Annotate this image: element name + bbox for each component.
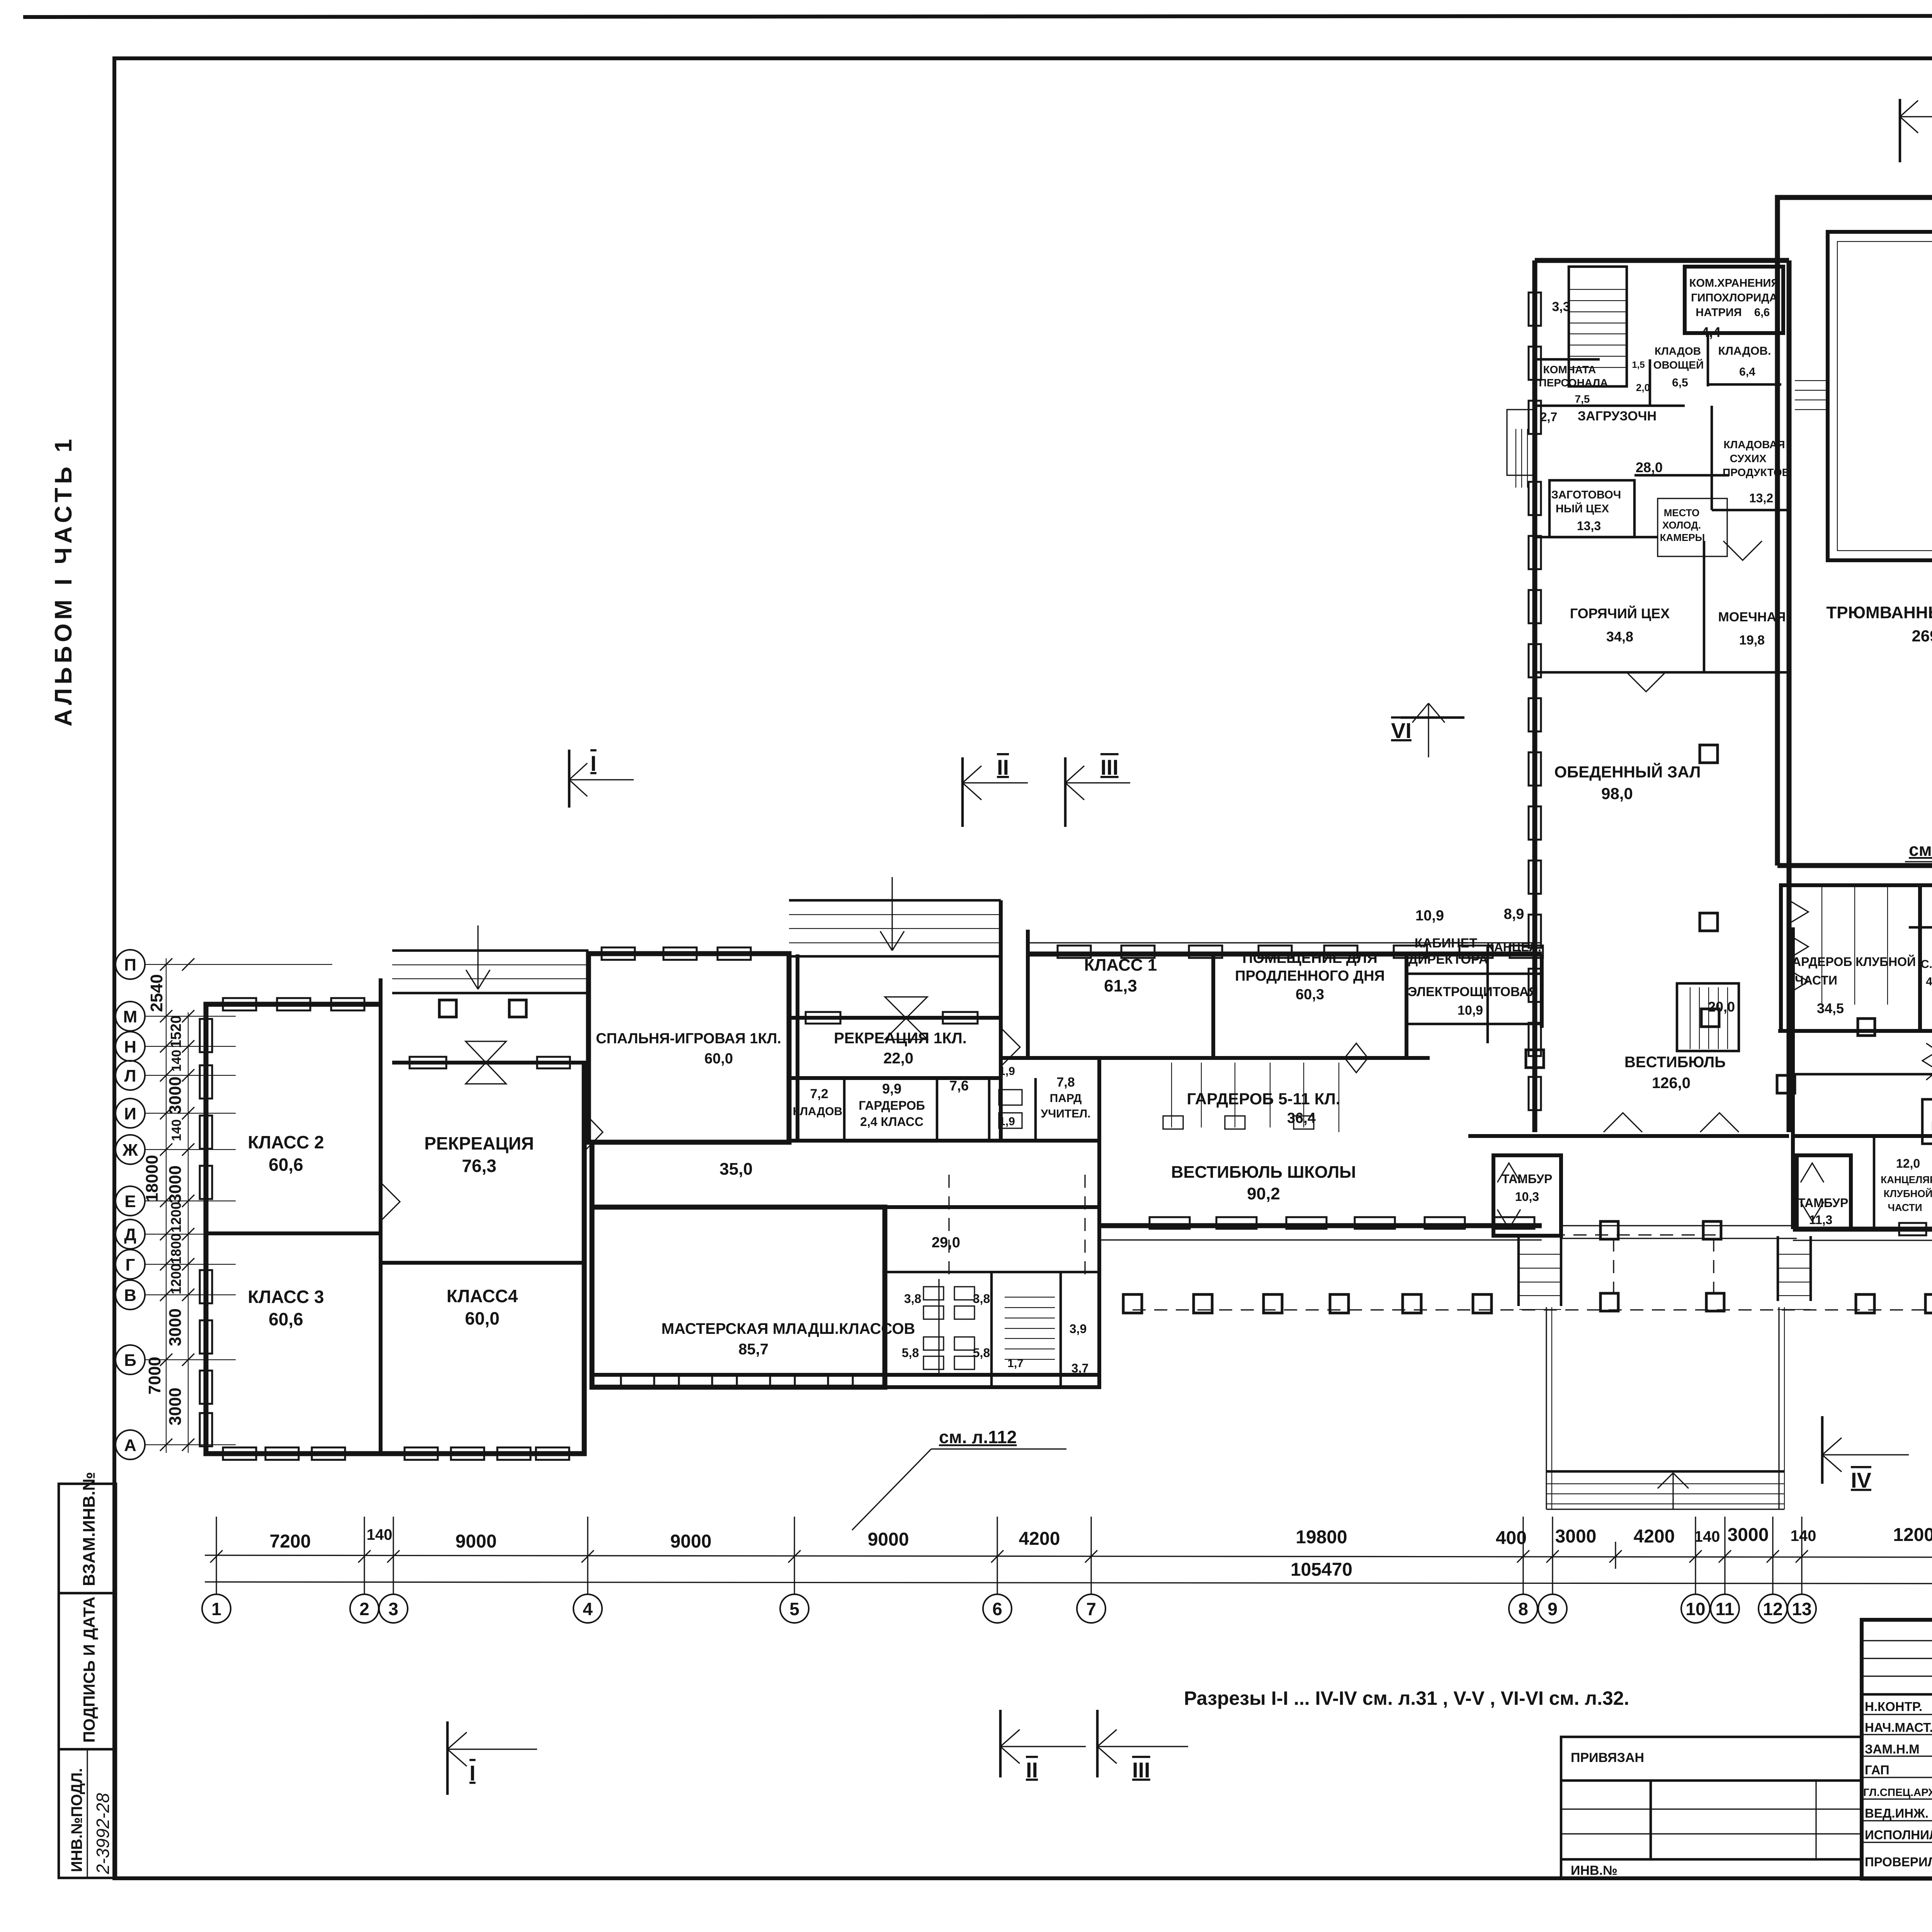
zagotovochniy box [1549,480,1634,537]
dining column 2 [1700,913,1718,931]
kabinet/kancel divider [1486,945,1489,1043]
svg-text:IV: IV [1851,1468,1871,1492]
svg-text:ХОЛОД.: ХОЛОД. [1662,519,1701,531]
svg-text:Разрезы I-I ... IV-IV см. л.31: Разрезы I-I ... IV-IV см. л.31 , V-V , V… [1184,1687,1629,1709]
spalnya south wall [789,1076,1001,1080]
bottom dimension values [270,1521,1932,1580]
partition y1265 [1634,474,1729,477]
svg-text:60,6: 60,6 [269,1309,303,1329]
svg-text:Н.КОНТР.: Н.КОНТР. [1865,1699,1922,1714]
porch entrance arrow left [466,925,490,989]
south window band line [592,1373,1099,1377]
svg-text:60,0: 60,0 [704,1051,733,1067]
svg-text:3,8: 3,8 [904,1292,921,1306]
svg-text:ГАРДЕРОБ КЛУБНОЙ: ГАРДЕРОБ КЛУБНОЙ [1786,955,1916,969]
svg-text:III: III [1100,755,1119,779]
svg-text:4,4: 4,4 [1701,324,1721,340]
svg-text:13: 13 [1792,1599,1811,1619]
svg-text:РЕКРЕАЦИЯ 1КЛ.: РЕКРЕАЦИЯ 1КЛ. [834,1030,967,1047]
svg-text:2,7: 2,7 [1540,410,1557,424]
wing1 outer walls [206,1004,584,1454]
svg-text:105470: 105470 [1291,1560,1352,1580]
svg-text:7000: 7000 [145,1357,164,1395]
section marker II top [963,755,1028,827]
axis row Б [116,1345,236,1374]
svg-text:КЛУБНОЙ: КЛУБНОЙ [1884,1188,1932,1199]
svg-text:60,0: 60,0 [465,1308,500,1328]
section marker IV top [1900,90,1932,162]
section marker I bottom [447,1721,537,1795]
partition y1090 [1535,358,1600,361]
south facade wall east of school vestibule [1468,1134,1789,1138]
role column texts [1863,1699,1932,1869]
vestibule north wall [1001,1056,1430,1060]
svg-text:III: III [1132,1758,1150,1782]
svg-text:ВЗАМ.ИНВ.№: ВЗАМ.ИНВ.№ [80,1472,99,1586]
svg-text:КАБИНЕТ: КАБИНЕТ [1415,936,1477,951]
corridor walls 59,5 [1793,1073,1932,1076]
axis row И [116,1099,236,1128]
svg-text:76,3: 76,3 [462,1156,497,1176]
section marker IV bottom [1822,1416,1909,1492]
svg-text:1200: 1200 [168,1202,184,1233]
svg-text:140: 140 [169,1119,184,1141]
garderob klubnoy chasti [1781,885,1920,1031]
svg-text:4200: 4200 [1019,1529,1060,1549]
svg-text:2: 2 [359,1599,369,1619]
svg-text:6,5: 6,5 [1672,376,1688,389]
svg-text:19,8: 19,8 [1739,633,1765,648]
entrance up arrow [1658,1473,1689,1509]
svg-text:34,5: 34,5 [1817,1000,1844,1016]
svg-text:90,2: 90,2 [1247,1184,1280,1203]
axis row Е [116,1186,236,1216]
svg-text:4,9: 4,9 [1926,975,1932,988]
svg-text:ЧАСТИ: ЧАСТИ [1795,973,1837,987]
wing1 centre wall [379,978,383,1454]
svg-text:П: П [124,956,136,975]
svg-text:МЕСТО: МЕСТО [1664,507,1700,519]
svg-text:МОЕЧНАЯ: МОЕЧНАЯ [1718,610,1786,624]
svg-text:Д: Д [124,1225,136,1244]
svg-text:1,7: 1,7 [1007,1357,1024,1370]
svg-text:2,0: 2,0 [1636,382,1650,393]
teachers wc fixtures [999,1090,1022,1105]
svg-text:5,8: 5,8 [973,1346,990,1360]
upper block south wall west part [1777,863,1932,868]
svg-text:10: 10 [1685,1599,1705,1619]
svg-text:1520: 1520 [168,1015,184,1048]
svg-text:13,3: 13,3 [1577,519,1601,533]
svg-text:ВЕД.ИНЖ.: ВЕД.ИНЖ. [1865,1806,1929,1820]
svg-text:ИСПОЛНИЛ: ИСПОЛНИЛ [1865,1828,1932,1842]
rekreacia1kl east wall [999,900,1003,1141]
elektroshitovaya bottom [1406,1023,1542,1026]
tambur 11,3 [1797,1155,1851,1229]
svg-text:8: 8 [1518,1599,1528,1619]
entrance side stair left [0,0,0,0]
svg-text:Е: Е [124,1192,136,1211]
axis row Л [116,1061,236,1090]
rekreacia door bowtie [466,1041,506,1084]
svg-text:12,0: 12,0 [1896,1156,1920,1170]
svg-text:VI: VI [1391,718,1412,743]
see-sheet note 112 dining [1905,840,1932,912]
svg-text:7,2: 7,2 [810,1087,828,1101]
wall rekreacia/klass4 [381,1261,584,1265]
svg-text:ПРОВЕРИЛ: ПРОВЕРИЛ [1865,1855,1932,1869]
svg-text:4: 4 [583,1599,593,1619]
svg-text:ПРОДУКТОВ: ПРОДУКТОВ [1723,466,1790,478]
svg-text:КЛАДОВАЯ: КЛАДОВАЯ [1724,439,1785,451]
svg-text:КОМНАТА: КОМНАТА [1543,364,1596,376]
page top edge line [23,15,1932,17]
svg-text:10,3: 10,3 [1515,1190,1539,1204]
axis row М [116,1002,236,1031]
vent square 1 [439,1000,456,1017]
svg-text:С.У.М: С.У.М [1921,958,1932,971]
svg-text:Н: Н [124,1037,136,1056]
svg-text:Ж: Ж [122,1141,138,1160]
svg-text:ТАМБУР: ТАМБУР [1502,1172,1553,1186]
axis row В [116,1280,236,1310]
svg-text:Г: Г [126,1255,135,1274]
svg-text:I: I [590,751,597,776]
spalnya igrovaya room box [588,954,789,1142]
tambur 10,3 school [1493,1155,1561,1236]
svg-text:ГИПОХЛОРИДА: ГИПОХЛОРИДА [1691,292,1777,304]
rekreacia north wall with door [392,1061,588,1065]
svg-text:ГАРДЕРОБ 5-11 КЛ.: ГАРДЕРОБ 5-11 КЛ. [1187,1090,1340,1108]
svg-text:СПАЛЬНЯ-ИГРОВАЯ 1КЛ.: СПАЛЬНЯ-ИГРОВАЯ 1КЛ. [596,1031,781,1047]
svg-text:140: 140 [367,1526,393,1543]
svg-text:МАСТЕРСКАЯ МЛАДШ.КЛАССОВ: МАСТЕРСКАЯ МЛАДШ.КЛАССОВ [662,1320,915,1337]
svg-text:7,6: 7,6 [949,1078,969,1094]
svg-text:ЧАСТИ: ЧАСТИ [1888,1202,1922,1213]
wing1 west windows [200,1019,212,1052]
svg-text:1,5: 1,5 [1632,360,1645,370]
svg-text:Б: Б [124,1351,136,1370]
holod kamera box [1658,498,1727,556]
svg-text:7,8: 7,8 [1056,1075,1075,1090]
klass1/prodlennogo divider [1211,954,1215,1058]
svg-text:3: 3 [388,1599,398,1619]
svg-text:34,8: 34,8 [1606,629,1633,645]
svg-text:36,4: 36,4 [1287,1110,1316,1126]
svg-text:10,9: 10,9 [1458,1003,1483,1018]
dashed guide lines vestibule west [948,1175,949,1279]
svg-text:КЛАДОВ.: КЛАДОВ. [793,1105,846,1118]
svg-text:ВЕСТИБЮЛЬ ШКОЛЫ: ВЕСТИБЮЛЬ ШКОЛЫ [1171,1163,1356,1182]
svg-text:ОВОЩЕЙ: ОВОЩЕЙ [1653,359,1704,371]
partition y1330 [1535,536,1658,539]
svg-text:КАНЦЕЛ.: КАНЦЕЛ. [1486,940,1541,954]
svg-text:ЗАМ.Н.М: ЗАМ.Н.М [1865,1742,1920,1756]
svg-text:85,7: 85,7 [738,1341,769,1358]
svg-text:СУХИХ: СУХИХ [1730,452,1767,464]
dining column 1 [1700,745,1718,763]
svg-text:3,3: 3,3 [1552,299,1570,314]
svg-text:А: А [124,1436,136,1455]
svg-text:см.л.112: см.л.112 [1909,840,1932,860]
strip divider 1 [59,1592,116,1595]
wing1 north windows [223,998,256,1010]
svg-text:9,9: 9,9 [882,1081,901,1097]
svg-text:400: 400 [1496,1528,1527,1548]
TITLEBLOCK [1561,1620,1932,1920]
svg-text:5: 5 [789,1599,799,1619]
svg-text:ГАРДЕРОБ: ГАРДЕРОБ [859,1099,925,1112]
kitchen west wall [1532,260,1537,1132]
left margin stamp strip [59,1484,116,1878]
svg-text:РЕКРЕАЦИЯ: РЕКРЕАЦИЯ [424,1133,534,1153]
svg-text:1,9: 1,9 [999,1115,1015,1128]
club block west wall [1791,927,1795,1229]
svg-text:5,8: 5,8 [902,1346,919,1360]
svg-text:1: 1 [211,1599,221,1619]
svg-text:ИНВ.№: ИНВ.№ [1571,1863,1617,1878]
club row south wall [1793,1227,1932,1232]
svg-text:КАМЕРЫ: КАМЕРЫ [1660,532,1705,543]
stair 20,0 [1677,983,1739,1051]
dining top wall [1535,671,1789,674]
axis row Г [116,1250,236,1279]
svg-text:126,0: 126,0 [1652,1075,1690,1092]
svg-text:2540: 2540 [147,974,166,1012]
stair hatch wc block [1005,1297,1055,1298]
svg-text:М: М [123,1007,138,1026]
elektroshitovaya top [1406,973,1542,975]
rekreacia 1kl door bowtie [885,997,927,1039]
canopy band rekreacia 1kl [789,899,1001,902]
svg-text:269,0: 269,0 [1912,627,1932,645]
vestibule column 1 [1526,1050,1544,1068]
axis row Д [116,1219,236,1249]
svg-text:ЗАГОТОВОЧ: ЗАГОТОВОЧ [1551,489,1621,501]
svg-text:I: I [469,1761,476,1785]
svg-text:9000: 9000 [670,1531,712,1552]
svg-text:140: 140 [169,1050,184,1072]
svg-text:9000: 9000 [868,1529,909,1550]
small rooms bottom wall [789,1139,1099,1143]
SECTIONS [447,60,1932,1795]
svg-text:7200: 7200 [270,1531,311,1552]
kladovaya suhih bottom [1712,509,1789,512]
wc fixtures [923,1287,944,1300]
svg-text:1,9: 1,9 [999,1065,1015,1078]
svg-text:3000: 3000 [166,1165,185,1203]
bottom dimension line lower (overall) [205,1582,1932,1584]
svg-text:см. л.112: см. л.112 [939,1427,1017,1447]
left axis row lines [116,950,332,1459]
svg-text:КЛАДОВ.: КЛАДОВ. [1718,345,1771,357]
svg-text:ЭЛЕКТРОЩИТОВАЯ: ЭЛЕКТРОЩИТОВАЯ [1408,985,1538,999]
kitchen east wall [1787,260,1792,1132]
canopy band rekreacia porch [392,949,588,952]
svg-text:ПРОДЛЕННОГО ДНЯ: ПРОДЛЕННОГО ДНЯ [1235,968,1385,984]
svg-text:ВЕСТИБЮЛЬ: ВЕСТИБЮЛЬ [1624,1054,1726,1071]
vestibule column 3 [1777,1075,1795,1093]
grid column axes ticks [210,1517,1932,1594]
svg-text:20,0: 20,0 [1708,999,1735,1015]
svg-text:ИНВ.№ПОДЛ.: ИНВ.№ПОДЛ. [68,1768,85,1872]
svg-text:4200: 4200 [1634,1526,1675,1547]
WALLS [200,110,1932,1509]
svg-text:ТАМБУР: ТАМБУР [1798,1196,1849,1210]
svg-text:9000: 9000 [456,1531,497,1552]
svg-text:12: 12 [1763,1599,1782,1619]
name rows [1862,1714,1932,1715]
svg-text:140: 140 [1791,1527,1816,1544]
kom hranenia box [1685,267,1783,333]
svg-text:ПАРД: ПАРД [1050,1092,1082,1105]
svg-text:НАЧ.МАСТ.: НАЧ.МАСТ. [1865,1720,1932,1735]
loading platform [1507,410,1535,475]
svg-text:ГОРЯЧИЙ ЦЕХ: ГОРЯЧИЙ ЦЕХ [1570,605,1670,621]
svg-text:3,9: 3,9 [1070,1322,1087,1336]
wing1 south windows [223,1447,256,1460]
svg-text:ГЛ.СПЕЦ.АРХ: ГЛ.СПЕЦ.АРХ [1863,1786,1932,1798]
school vestibule south wall + windows [1099,1223,1542,1228]
svg-text:ОБЕДЕННЫЙ ЗАЛ: ОБЕДЕННЫЙ ЗАЛ [1554,762,1701,781]
svg-text:60,6: 60,6 [269,1155,303,1175]
svg-text:7,5: 7,5 [1575,393,1590,405]
svg-text:ПОДПИСЬ И ДАТА: ПОДПИСЬ И ДАТА [80,1597,98,1743]
svg-text:1800: 1800 [168,1233,184,1264]
kitchen stair 3,3 [1569,267,1627,386]
section marker III bottom [1097,1710,1188,1782]
strip east wall [1540,954,1544,1028]
GRIDBOT [202,1517,1932,1623]
section marker III top [1065,755,1130,827]
svg-text:В: В [124,1286,136,1305]
pool hall outer [1777,197,1932,866]
svg-text:ДИРЕКТОРА: ДИРЕКТОРА [1408,952,1488,967]
sanuzly block [1920,885,1932,1031]
svg-text:КАНЦЕЛЯРИЯ: КАНЦЕЛЯРИЯ [1881,1174,1932,1185]
svg-text:КЛАСС 1: КЛАСС 1 [1084,956,1157,975]
svg-text:28,0: 28,0 [1636,459,1663,475]
entrance side stair right [1777,1254,1810,1255]
privyazan box [1561,1737,1862,1879]
svg-text:3000: 3000 [166,1308,185,1346]
pool basin [1828,232,1932,560]
axis row А [116,1430,236,1459]
svg-text:9: 9 [1548,1599,1558,1619]
svg-text:НЫЙ ЦЕХ: НЫЙ ЦЕХ [1556,502,1609,515]
section marker VI left [1391,703,1464,757]
prodlennogo/kabinet divider [1405,954,1408,1058]
svg-text:3000: 3000 [1555,1526,1597,1547]
bottom dimension line upper [205,1555,1932,1558]
svg-text:КОМ.ХРАНЕНИЯ: КОМ.ХРАНЕНИЯ [1689,277,1779,289]
club san bottom walls [1778,1029,1920,1033]
axis row Н [116,1032,236,1061]
svg-text:II: II [997,755,1009,779]
left dim chain values [143,974,185,1425]
vent square 2 [509,1000,526,1017]
strip divider 2 [59,1748,116,1751]
svg-text:Л: Л [124,1066,136,1085]
svg-text:КЛАСС4: КЛАСС4 [447,1286,518,1306]
svg-text:3,7: 3,7 [1071,1361,1088,1375]
svg-text:НАТРИЯ: НАТРИЯ [1696,306,1742,319]
svg-text:61,3: 61,3 [1104,976,1137,995]
svg-text:ГАП: ГАП [1865,1763,1889,1777]
club block top walls [1909,926,1932,929]
wall klass2/klass3 [206,1231,381,1235]
svg-text:ТРЮМВАННЫ БАССЕЙНА: ТРЮМВАННЫ БАССЕЙНА [1826,602,1932,622]
svg-text:КЛАСС 3: КЛАСС 3 [248,1287,324,1307]
svg-text:8,9: 8,9 [1504,906,1524,922]
entrance plaza steps [1546,1470,1784,1473]
svg-text:2,4 КЛАСС: 2,4 КЛАСС [860,1115,923,1129]
svg-text:2-3992-28: 2-3992-28 [93,1793,113,1874]
top rows thin lines [1862,1640,1932,1641]
vestibule column 2 [1701,1009,1719,1027]
masterskaya mladshih klassov [592,1207,885,1387]
rekreacia 1kl north wall with door [789,1016,1001,1020]
porch entrance arrow right [880,877,904,951]
svg-text:12000: 12000 [1893,1525,1932,1545]
svg-text:11,3: 11,3 [1809,1213,1833,1227]
svg-text:КЛАСС 2: КЛАСС 2 [248,1132,324,1152]
kitchen top wall [1535,258,1789,263]
svg-text:ЗАГРУЗОЧН: ЗАГРУЗОЧН [1578,409,1656,423]
svg-text:98,0: 98,0 [1601,784,1633,803]
svg-text:60,3: 60,3 [1296,986,1324,1003]
svg-text:7: 7 [1086,1599,1096,1619]
door jags [584,1113,603,1151]
spalnya west wall [590,1142,595,1207]
svg-text:3,8: 3,8 [973,1292,990,1306]
section marker II bottom [1000,1710,1086,1782]
svg-text:10,9: 10,9 [1415,908,1444,924]
sanitary block [885,1207,1099,1387]
svg-text:140: 140 [1694,1528,1720,1545]
see-sheet note 112 bottom [852,1427,1066,1530]
svg-text:ПОМЕЩЕНИЕ ДЛЯ: ПОМЕЩЕНИЕ ДЛЯ [1242,950,1378,966]
svg-text:29,0: 29,0 [932,1235,960,1251]
axis row П [116,950,332,979]
garderob 5-11 fence [1171,1063,1172,1128]
vestibule door zigzag [1922,1043,1932,1080]
section marker I top [569,750,634,808]
grid column circles 1..22 [202,1594,1932,1623]
klass1 west wall [1026,930,1030,1058]
svg-text:II: II [1026,1758,1038,1782]
kassa box [1922,1099,1932,1144]
svg-text:19800: 19800 [1296,1527,1347,1548]
klass1 north window wall [1028,952,1542,957]
svg-text:И: И [124,1104,136,1123]
svg-text:22,0: 22,0 [883,1050,913,1067]
title block outer box [1862,1620,1932,1879]
GRIDLEFT [116,950,332,1459]
svg-text:13,2: 13,2 [1749,491,1773,505]
club row north wall [1793,1134,1932,1138]
svg-text:3000: 3000 [166,1388,185,1425]
svg-text:6,6: 6,6 [1754,306,1770,319]
svg-text:11: 11 [1716,1599,1735,1619]
svg-text:18000: 18000 [143,1155,162,1202]
svg-text:ПРИВЯЗАН: ПРИВЯЗАН [1571,1750,1644,1765]
svg-text:ПЕРСОНАЛА: ПЕРСОНАЛА [1539,377,1608,389]
entrance plaza rails [1546,1307,1547,1509]
svg-text:35,0: 35,0 [719,1160,753,1179]
svg-text:УЧИТЕЛ.: УЧИТЕЛ. [1041,1107,1090,1120]
svg-text:6: 6 [992,1599,1002,1619]
